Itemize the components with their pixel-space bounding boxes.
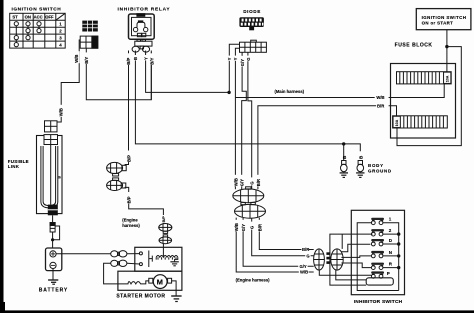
wire G/Y diode pin3 down	[242, 52, 247, 189]
bullet connector pair lower	[107, 178, 126, 191]
wire Y diode pin1 to junction	[229, 44, 239, 92]
label W/B above oval	[233, 175, 238, 187]
svg-text:W/B: W/B	[300, 270, 308, 275]
switch row R	[371, 262, 393, 270]
field winding	[118, 281, 149, 284]
wire ignition feed around fuse block	[397, 47, 461, 146]
switch row N	[371, 250, 392, 258]
wire into magnetic switch	[162, 244, 164, 258]
wire B/R main harness from fuse block	[258, 106, 397, 190]
svg-text:ON or START: ON or START	[422, 21, 454, 26]
solenoid coil	[156, 256, 178, 258]
fuse row top	[397, 72, 452, 84]
label B/Y	[149, 53, 154, 65]
switch contacts	[139, 252, 142, 255]
label G/Y above oval	[239, 175, 244, 187]
svg-text:B/Y: B/Y	[84, 57, 89, 64]
fusible link bottom terminal	[48, 205, 58, 216]
wire pair2 to switch contact	[127, 262, 139, 265]
diode connector	[240, 40, 267, 52]
ignition switch contact table	[10, 13, 65, 48]
border notch	[0, 302, 5, 311]
wire G lower oval to switch	[252, 218, 314, 256]
svg-text:ACC: ACC	[34, 14, 43, 19]
wire row 2 tap to connector top	[341, 234, 343, 249]
switch row D	[371, 238, 393, 246]
svg-text:B/R: B/R	[256, 179, 261, 186]
label B/P (lower)	[126, 192, 131, 204]
ignition switch feed box	[416, 9, 471, 30]
switch row P	[371, 271, 390, 278]
label B/R above oval	[256, 175, 261, 187]
body ground drop 1	[340, 144, 348, 178]
P loop	[366, 278, 393, 285]
wire left oval bottom to row P	[319, 270, 372, 275]
oval connector at starter (upper)	[159, 224, 172, 234]
wire ignition to fuse	[446, 30, 448, 72]
svg-text:G: G	[250, 226, 255, 229]
fuse block box	[391, 64, 456, 139]
engine harness oval connector upper	[233, 187, 264, 205]
wire B/R lower oval to switch	[259, 218, 313, 250]
svg-text:Y: Y	[233, 57, 238, 60]
battery ground	[48, 269, 58, 285]
svg-text:ST: ST	[12, 14, 18, 19]
svg-text:B: B	[359, 156, 364, 159]
wire connector to row D	[341, 244, 370, 252]
svg-text:B/P: B/P	[162, 216, 166, 223]
inhibitor switch connector right oval	[331, 249, 343, 270]
label B/P	[126, 53, 131, 65]
svg-text:B: B	[342, 156, 347, 159]
svg-text:(Engine: (Engine	[122, 218, 138, 223]
motor box	[118, 271, 182, 290]
border bar left	[0, 0, 4, 313]
ignition switch connector (dark)	[82, 21, 98, 32]
junction dot Y	[227, 91, 230, 94]
svg-text:G/Y: G/Y	[240, 179, 245, 186]
svg-text:G/Y: G/Y	[241, 224, 246, 231]
wire Y relay pin3 to diode junction	[146, 51, 229, 93]
svg-text:ON: ON	[25, 14, 31, 19]
svg-text:IGNITION SWITCH: IGNITION SWITCH	[12, 6, 62, 12]
fuse 10A bottom	[393, 116, 400, 127]
ignition switch connector (lower)	[80, 36, 98, 48]
magnetic switch box	[135, 247, 182, 271]
fuse 10A top	[444, 72, 451, 83]
wire B/Y relay pin4	[150, 51, 152, 100]
label G above oval	[249, 177, 254, 185]
svg-text:W/B: W/B	[58, 108, 63, 116]
svg-text:G: G	[306, 253, 309, 258]
label B/R	[257, 220, 262, 232]
wire Y diode pin2 / W-B vertical to engine harness connector	[235, 48, 239, 189]
svg-text:W/B: W/B	[74, 55, 79, 63]
svg-text:B/P: B/P	[127, 196, 132, 203]
oval connector at starter (lower)	[159, 235, 172, 244]
table contact circles ACC column	[37, 22, 41, 33]
fusible link connector (2x2)	[45, 121, 58, 132]
fuse row bottom	[393, 116, 448, 128]
plunger	[149, 251, 153, 268]
switch row 2	[371, 228, 392, 236]
wire G diode pin4 down	[248, 52, 252, 189]
label G/Y	[241, 220, 246, 232]
junction dot	[445, 45, 448, 48]
relay connector	[132, 39, 152, 52]
svg-text:W/B: W/B	[234, 223, 239, 231]
svg-text:B/Y: B/Y	[149, 58, 154, 65]
label Y	[227, 56, 232, 61]
svg-text:IGNITION SWITCH: IGNITION SWITCH	[422, 15, 467, 20]
wire B/P relay pin1 down to bullet connector	[125, 51, 129, 165]
svg-text:P: P	[387, 271, 390, 276]
wire pair1 to switch contact	[127, 253, 139, 255]
border bar bottom	[0, 310, 474, 313]
label Y	[143, 55, 148, 60]
coil ground	[170, 257, 178, 266]
svg-text:W/B: W/B	[233, 178, 238, 186]
wire W/B from ignition connector to fusible link	[57, 40, 80, 122]
svg-text:(Engine harness): (Engine harness)	[236, 277, 271, 282]
svg-text:INHIBITOR RELAY: INHIBITOR RELAY	[118, 7, 171, 13]
body ground drop 2	[356, 156, 364, 178]
svg-text:B/R: B/R	[302, 247, 309, 252]
battery BT1	[46, 248, 62, 271]
wire row 2 wrap to P loop	[330, 234, 373, 285]
svg-text:B/R: B/R	[257, 224, 262, 231]
label G	[249, 222, 254, 230]
label W/B	[234, 220, 239, 232]
svg-text:GROUND: GROUND	[368, 168, 392, 173]
svg-text:G: G	[250, 181, 255, 184]
fusible link FL1	[37, 135, 63, 214]
label B	[133, 55, 138, 60]
starter motor M1	[149, 275, 172, 289]
starter bullet pair 1	[111, 251, 127, 257]
motor output to ground	[172, 281, 177, 296]
svg-text:Y: Y	[227, 57, 232, 60]
label W/B	[74, 51, 79, 63]
junction dot battery	[51, 238, 54, 241]
label B/Y	[84, 52, 89, 64]
inhibitor relay U1	[129, 13, 155, 39]
svg-text:W/B: W/B	[376, 95, 384, 100]
svg-text:10A: 10A	[446, 75, 450, 82]
svg-text:Y: Y	[144, 57, 149, 60]
svg-text:FUSE BLOCK: FUSE BLOCK	[395, 43, 433, 49]
label B/P (at starter)	[161, 215, 166, 223]
svg-text:B/P: B/P	[126, 58, 131, 65]
wire to battery with bypass loop	[53, 226, 60, 248]
wire battery branch wrap to motor field	[104, 263, 118, 284]
label W/B (lower, on wire)	[57, 105, 63, 117]
svg-text:LINK: LINK	[8, 164, 20, 169]
wire B relay pin2 to body ground line	[135, 51, 360, 152]
bus row stubs	[383, 234, 399, 268]
svg-text:(Main harness): (Main harness)	[275, 89, 305, 94]
svg-text:BATTERY: BATTERY	[39, 288, 68, 294]
table contact circles ON column	[26, 22, 30, 40]
svg-text:STARTER MOTOR: STARTER MOTOR	[116, 294, 165, 300]
svg-text:INHIBITOR SWITCH: INHIBITOR SWITCH	[354, 299, 403, 305]
label G/Y	[240, 56, 245, 67]
starter bullet pair 2	[111, 260, 127, 266]
svg-text:G: G	[246, 58, 251, 61]
wire connector to row N	[341, 256, 371, 258]
svg-text:B/R: B/R	[377, 103, 384, 108]
wire B/Y from ignition connector to relay	[86, 48, 151, 100]
label B/P (mid)	[126, 151, 131, 163]
svg-text:10A: 10A	[395, 119, 399, 126]
svg-text:BODY: BODY	[368, 163, 384, 168]
right bus	[383, 223, 399, 291]
wire connector to row R	[341, 263, 371, 268]
svg-text:M: M	[157, 277, 163, 286]
svg-text:N: N	[389, 250, 392, 255]
wire W/B lower oval to switch	[236, 218, 314, 272]
svg-text:G/Y: G/Y	[300, 264, 307, 269]
wire W/B main harness to fuse block	[235, 84, 444, 98]
inhibitor switch box	[351, 210, 404, 294]
diode pack D1	[239, 17, 264, 30]
label G	[246, 56, 251, 62]
wire right oval bottom to P loop	[336, 270, 366, 280]
label Y	[233, 56, 238, 61]
mating pins	[326, 252, 330, 264]
battery cable to starter	[56, 253, 111, 255]
svg-text:harness): harness)	[122, 223, 140, 228]
bus junction dots	[397, 232, 400, 235]
table contact circles ST column	[14, 22, 18, 47]
inhibitor switch connector left oval	[314, 249, 325, 270]
inline fuse to battery	[52, 215, 54, 222]
switch row 1	[371, 217, 392, 225]
motor ground	[171, 296, 181, 302]
svg-text:B: B	[133, 57, 138, 60]
bullet connector pair (B/P)	[107, 162, 127, 176]
svg-text:OFF: OFF	[45, 14, 54, 19]
body ground junction dot	[342, 142, 345, 145]
svg-text:B/P: B/P	[126, 155, 131, 162]
wire G/Y lower oval to switch	[243, 218, 314, 266]
svg-text:DIODE: DIODE	[243, 9, 261, 14]
wire B/P bullet to starter ovals	[125, 187, 164, 223]
engine harness oval connector lower	[235, 204, 266, 218]
wire row 1 wrap to bus bottom	[357, 223, 399, 291]
svg-text:G/Y: G/Y	[240, 59, 245, 66]
